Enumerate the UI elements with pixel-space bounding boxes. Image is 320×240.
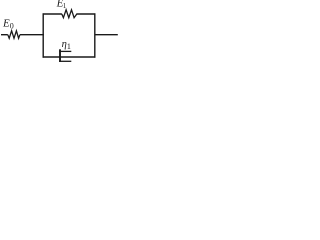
dashpot eta1 cylinder top line [59,50,71,52]
wire E0 to left node [20,34,44,36]
resistor (spring) E1 [62,10,77,18]
resistor (spring) E0 [8,31,20,39]
right vertical wire of parallel block [94,13,96,57]
wire output right [95,34,118,36]
dashpot eta1 piston bar [59,49,61,62]
svg-text:E1: E1 [56,0,67,10]
svg-text:E0: E0 [2,18,14,31]
left vertical wire of parallel block [42,13,44,57]
wire input left [1,34,8,36]
wire bottom branch [43,56,96,58]
wire top branch left [43,13,62,15]
wire top branch right [76,13,95,15]
dashpot eta1 cylinder bottom line [59,60,71,62]
svg-text:η1: η1 [62,39,71,51]
